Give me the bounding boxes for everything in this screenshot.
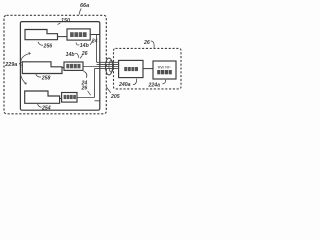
wire row1 module to unit box1 [58, 36, 68, 38]
leader for 66a [79, 9, 81, 15]
svg-text:14b: 14b [80, 43, 90, 49]
unit box2 [64, 62, 83, 70]
svg-text:150: 150 [61, 18, 70, 24]
hook leader 26 top right [151, 41, 154, 48]
arrowhead up arc [29, 52, 31, 54]
interface box A [119, 60, 143, 77]
label 256 leader curl [38, 42, 43, 45]
svg-text:256: 256 [43, 44, 53, 50]
interface box A glyph text [124, 67, 138, 71]
paper background [0, 0, 186, 120]
host box B [153, 61, 176, 79]
svg-text:240a: 240a [118, 82, 131, 88]
stepped module box row1 [25, 30, 58, 40]
label 254 leader curl [38, 104, 42, 107]
wire unit box3 to bus vertical [77, 69, 95, 98]
hook leader row3 labels [84, 71, 87, 78]
host box B line2 glyph text [157, 70, 172, 74]
svg-text:RW RF: RW RF [158, 65, 172, 70]
svg-text:14b: 14b [66, 52, 76, 58]
label 24 slash leader [90, 40, 93, 45]
outer dashed enclosure 66a [4, 15, 106, 114]
unit box1 glyph text [70, 32, 87, 37]
wire box A to box B [143, 68, 153, 70]
wire row3 module to unit box3 [60, 98, 62, 100]
bus line 3 from unit box2 [83, 66, 119, 68]
arrowhead down arc [24, 82, 26, 84]
unit box1 [67, 29, 90, 40]
unit box3 glyph text [64, 95, 76, 99]
svg-text:258: 258 [41, 75, 51, 81]
bus line 4 [95, 68, 119, 70]
wire unit box1 to right edge [90, 34, 100, 36]
right dashed enclosure 26 [114, 48, 182, 89]
svg-text:254: 254 [41, 106, 51, 112]
unit box3 [62, 93, 77, 103]
stepped module box row2 [22, 62, 62, 74]
bus line 1 [97, 35, 119, 63]
arrowhead for 229a [19, 62, 21, 65]
svg-text:205: 205 [110, 94, 120, 100]
wire row2 module to unit box2 [62, 67, 64, 69]
curved arrow down from 229a [20, 67, 26, 84]
stepped module box row3 [25, 91, 60, 103]
curved arrow up from 229a [21, 53, 30, 61]
cable bundle ellipse 2 [109, 61, 114, 73]
svg-text:224a: 224a [148, 83, 161, 89]
leader 224a [162, 80, 165, 84]
slash leader 26 row2 [80, 55, 82, 58]
slash leader mid labels [88, 91, 91, 95]
label 14b row1 leader curl [76, 43, 79, 45]
leader for 150 [58, 23, 61, 25]
leader 240a [133, 79, 137, 85]
squiggle leader 14b row2 [75, 54, 79, 58]
svg-text:66a: 66a [80, 3, 89, 9]
svg-text:229a: 229a [4, 62, 17, 68]
unit box2 glyph text [66, 64, 80, 68]
bus line 2 [97, 63, 119, 65]
leader 205 [106, 87, 110, 93]
svg-text:26: 26 [143, 40, 150, 46]
svg-text:26: 26 [81, 86, 88, 92]
label 258 leader curl [36, 74, 41, 77]
wire stub near right edge [95, 100, 100, 102]
inner solid enclosure 150 [20, 22, 99, 111]
cable bundle ellipse 1 [105, 58, 112, 75]
